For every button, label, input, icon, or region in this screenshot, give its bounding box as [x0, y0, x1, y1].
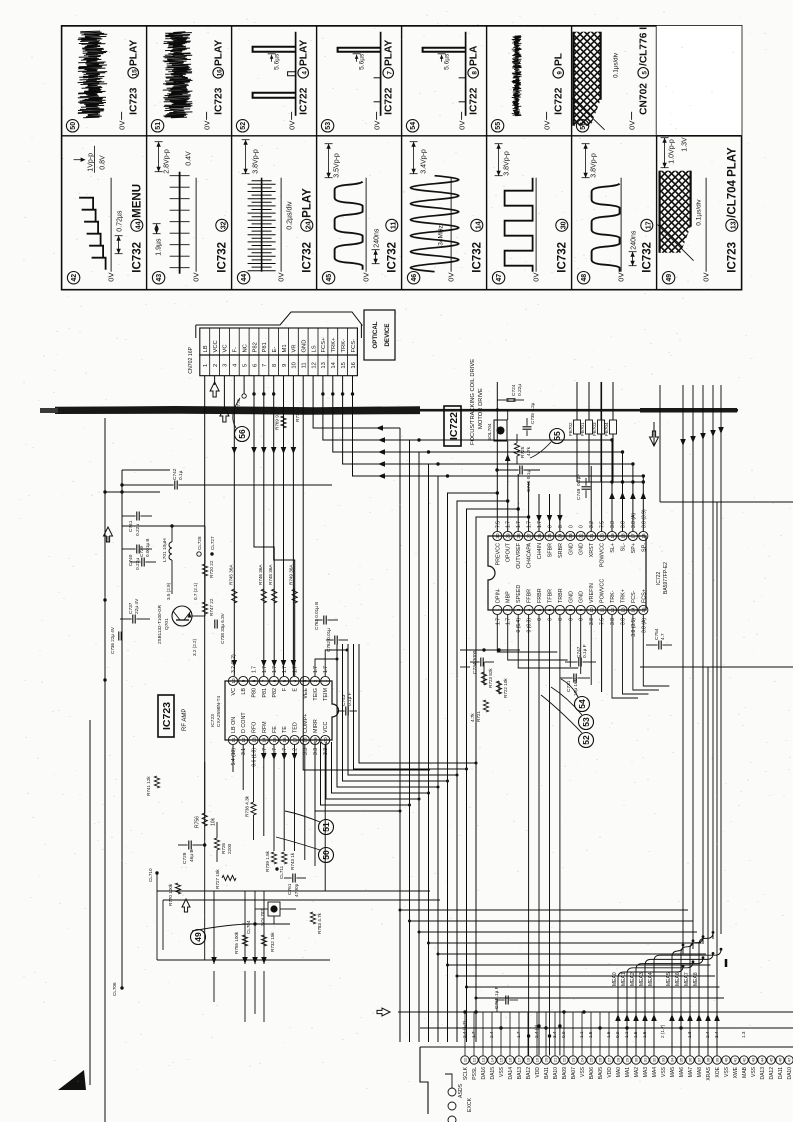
- svg-text:1.7: 1.7: [471, 1031, 476, 1038]
- wire pin11 GND: [303, 376, 430, 770]
- svg-text:XOE: XOE: [715, 1066, 721, 1077]
- svg-text:3.1: 3.1: [241, 748, 247, 755]
- svg-text:LB: LB: [241, 688, 247, 695]
- svg-text:P80: P80: [252, 688, 258, 698]
- svg-text:E: E: [293, 688, 299, 692]
- svg-text:MEA2: MEA2: [630, 972, 636, 986]
- oscillogram box 50: [66, 120, 78, 132]
- svg-text:DA14: DA14: [508, 1067, 514, 1080]
- resistor R722 10k: [496, 681, 501, 694]
- ref 52 53 54: [579, 733, 594, 748]
- svg-text:IC722: IC722: [299, 87, 310, 115]
- svg-text:13: 13: [620, 607, 625, 613]
- svg-text:12: 12: [241, 737, 246, 743]
- CL710: [155, 871, 158, 874]
- svg-text:3.4Vp-p: 3.4Vp-p: [421, 149, 428, 174]
- svg-text:OUTVREF: OUTVREF: [516, 542, 522, 568]
- GND / VREFIN wires: [569, 615, 571, 667]
- svg-text:43: 43: [751, 1057, 756, 1062]
- RF amplifier IC723 CXA2598N-T4: [225, 681, 339, 740]
- svg-text:7: 7: [262, 364, 268, 367]
- svg-text:0 (5.4): 0 (5.4): [516, 618, 522, 633]
- resistor R727 15k: [222, 875, 236, 880]
- svg-text:4: 4: [292, 679, 297, 682]
- svg-text:0V: 0V: [192, 273, 201, 282]
- XRAS XOE wires: [708, 667, 793, 1056]
- svg-text:0V: 0V: [702, 273, 711, 282]
- svg-text:11: 11: [599, 607, 604, 612]
- resistor R739 1.5k: [271, 852, 276, 864]
- svg-text:3.3: 3.3: [313, 748, 319, 755]
- svg-text:43: 43: [156, 274, 163, 282]
- svg-text:1.5: 1.5: [588, 1031, 593, 1038]
- svg-text:4.7k: 4.7k: [470, 713, 475, 722]
- svg-text:46: 46: [778, 1057, 783, 1062]
- svg-text:0V: 0V: [458, 121, 467, 130]
- svg-text:0.2µs/div: 0.2µs/div: [287, 201, 294, 230]
- svg-text:16: 16: [508, 1057, 513, 1062]
- capacitor C749 0.1uF: [582, 488, 591, 490]
- IC723 left pin wires: [232, 745, 234, 772]
- svg-text:C743: C743: [341, 694, 347, 706]
- svg-text:0V: 0V: [617, 273, 626, 282]
- svg-text:TED: TED: [293, 722, 299, 733]
- svg-text:ASDS: ASDS: [458, 1083, 464, 1098]
- svg-text:7.5: 7.5: [600, 618, 606, 625]
- svg-text:55: 55: [552, 431, 562, 441]
- svg-text:IC732: IC732: [217, 242, 229, 273]
- POWVCC stub: [601, 615, 603, 692]
- svg-text:10µH: 10µH: [162, 538, 168, 550]
- svg-text:20: 20: [544, 1057, 549, 1062]
- svg-text:5: 5: [282, 679, 287, 682]
- svg-text:14: 14: [631, 607, 636, 613]
- thick tick mark: [725, 959, 728, 967]
- MEA0-MEA8 memory bus wires: [682, 385, 684, 954]
- svg-text:0: 0: [579, 525, 585, 528]
- resistor R726 2200: [214, 838, 219, 850]
- svg-text:TFBR: TFBR: [548, 589, 554, 603]
- svg-text:38: 38: [706, 1057, 711, 1062]
- CL704: [253, 922, 256, 925]
- svg-text:31: 31: [643, 1057, 648, 1062]
- svg-text:CXA2598N-T4: CXA2598N-T4: [216, 695, 222, 727]
- svg-text:0V: 0V: [362, 273, 371, 282]
- svg-text:36: 36: [688, 1057, 693, 1062]
- svg-text:11: 11: [231, 737, 236, 742]
- svg-text:FRBR: FRBR: [537, 588, 543, 603]
- svg-text:25: 25: [589, 1057, 594, 1062]
- IC723 label: [158, 695, 174, 737]
- svg-text:6: 6: [272, 679, 277, 682]
- bus branch wire: [419, 931, 697, 933]
- svg-text:26: 26: [598, 1057, 603, 1062]
- svg-text:1.7: 1.7: [495, 618, 501, 625]
- oscillogram box 43: [152, 272, 164, 284]
- svg-text:MAB: MAB: [742, 1066, 748, 1078]
- svg-text:1.5: 1.5: [633, 1031, 638, 1038]
- wire pin2 VCC supply: [214, 376, 216, 385]
- svg-text:0: 0: [558, 618, 564, 621]
- capacitor C736 22u 4V: [118, 632, 120, 641]
- capacitor C768 0.1uF: [505, 996, 507, 1005]
- svg-text:4: 4: [233, 363, 239, 367]
- svg-text:14: 14: [474, 221, 482, 229]
- bus branch wire: [457, 975, 715, 977]
- svg-text:C749: C749: [576, 488, 582, 500]
- svg-text:20: 20: [599, 533, 604, 539]
- svg-text:MEA5: MEA5: [666, 972, 672, 986]
- svg-text:IC732: IC732: [642, 242, 654, 273]
- capacitor C731 10u16V: [573, 674, 575, 683]
- svg-text:SL+: SL+: [610, 543, 616, 553]
- svg-text:27: 27: [607, 1057, 612, 1062]
- bus branch wire: [400, 909, 688, 911]
- svg-text:33: 33: [661, 1057, 666, 1062]
- svg-text:44: 44: [760, 1057, 765, 1062]
- svg-text:PLAY: PLAY: [129, 40, 140, 66]
- svg-text:R748 36A: R748 36A: [268, 564, 273, 585]
- capacitor C737 22u 4V: [132, 615, 134, 624]
- svg-text:0.1µs/div: 0.1µs/div: [613, 52, 620, 78]
- wires CH4IN SFBR SRBR with arrows: [538, 494, 540, 531]
- svg-text:45: 45: [769, 1057, 774, 1062]
- solenoid SOL702: [268, 902, 280, 916]
- bus arrow: [377, 1008, 390, 1016]
- svg-text:P81: P81: [262, 688, 268, 698]
- svg-text:0: 0: [537, 618, 543, 621]
- capacitor C740 0.22u: [136, 545, 138, 554]
- svg-text:FCS+: FCS+: [641, 589, 647, 603]
- transistor Q701 2SB1132: [172, 606, 192, 626]
- svg-text:1.7: 1.7: [516, 1031, 521, 1038]
- svg-text:240ns: 240ns: [631, 230, 638, 250]
- capacitor C743 0.1uF: [345, 707, 347, 716]
- svg-text:SFBR: SFBR: [548, 543, 554, 557]
- svg-text:3.5 (2.9): 3.5 (2.9): [166, 582, 171, 600]
- wire OPOUT row: [507, 441, 509, 531]
- capacitor C745 0.1u: [519, 466, 521, 475]
- svg-text:P81: P81: [262, 342, 268, 352]
- ferrite beads FB702 FB701 FB703 FB704: [574, 420, 581, 434]
- wires left-top: [89, 720, 91, 1085]
- svg-text:MA5: MA5: [670, 1067, 676, 1078]
- CL706: [120, 986, 123, 989]
- bus corner bundle near IC723: [315, 742, 400, 811]
- svg-text:3.8: 3.8: [610, 618, 616, 625]
- svg-text:10: 10: [292, 362, 298, 368]
- wires looping under IC723: [315, 659, 337, 676]
- svg-text:R721: R721: [476, 711, 481, 722]
- capacitor C734 33000: [480, 658, 482, 667]
- svg-text:1.7: 1.7: [272, 666, 278, 673]
- resistor R723 82k: [481, 672, 486, 685]
- svg-text:1.7: 1.7: [506, 618, 512, 625]
- svg-text:FCS-: FCS-: [631, 590, 637, 603]
- FFBR/FRBR/TFBR/TRBR wires to IC732: [528, 615, 530, 1056]
- signal processor IC732 (partial): [420, 1046, 793, 1048]
- svg-text:5.6µs: 5.6µs: [444, 53, 451, 70]
- svg-text:VSS: VSS: [580, 1066, 586, 1077]
- scan corner mark: [58, 1070, 86, 1090]
- svg-text:CN702: CN702: [639, 83, 650, 115]
- svg-text:PLAY: PLAY: [302, 188, 314, 218]
- bus branch wire: [467, 986, 720, 988]
- svg-text:3.4: 3.4: [552, 1031, 557, 1038]
- oscillogram box 51: [151, 120, 163, 132]
- svg-text:MEA3: MEA3: [639, 972, 645, 986]
- svg-text:1.7: 1.7: [537, 521, 543, 528]
- svg-text:GND: GND: [579, 543, 585, 555]
- svg-text:0: 0: [568, 525, 574, 528]
- svg-text:R749 36A: R749 36A: [289, 564, 294, 585]
- svg-text:50: 50: [321, 850, 331, 860]
- wire pin1 LB: [204, 376, 206, 840]
- svg-text:23: 23: [568, 533, 573, 539]
- svg-text:9: 9: [579, 608, 584, 611]
- svg-text:8: 8: [568, 608, 573, 611]
- svg-text:OPOUT: OPOUT: [506, 542, 512, 562]
- svg-text:4: 4: [301, 71, 308, 75]
- svg-text:24: 24: [580, 1057, 585, 1062]
- svg-text:55: 55: [495, 122, 502, 130]
- svg-text:30: 30: [634, 1057, 639, 1062]
- svg-text:0V: 0V: [628, 121, 637, 130]
- svg-text:SCLK: SCLK: [463, 1066, 469, 1080]
- svg-text:R723 82k: R723 82k: [488, 668, 493, 688]
- bus branch wire: [448, 964, 711, 966]
- svg-text:MEA1: MEA1: [621, 972, 627, 986]
- svg-text:0V: 0V: [107, 273, 116, 282]
- svg-text:3.8: 3.8: [621, 521, 627, 528]
- svg-text:46: 46: [411, 274, 418, 282]
- svg-text:CL706: CL706: [112, 982, 117, 996]
- svg-text:1.3V: 1.3V: [682, 137, 689, 152]
- svg-text:0.9: 0.9: [615, 1031, 620, 1038]
- svg-text:DA11: DA11: [778, 1067, 784, 1079]
- svg-text:24: 24: [558, 533, 563, 539]
- resistor R725 4.7k: [514, 443, 519, 456]
- svg-text:C735 0.2µ: C735 0.2µ: [530, 402, 535, 424]
- svg-text:12: 12: [311, 362, 317, 368]
- svg-text:7.5: 7.5: [600, 521, 606, 528]
- svg-text:NC: NC: [242, 344, 248, 352]
- test pins EXCK / ASDS: [448, 1088, 456, 1096]
- svg-text:26: 26: [537, 533, 542, 539]
- svg-text:28: 28: [616, 1057, 621, 1062]
- svg-text:42: 42: [742, 1057, 747, 1062]
- svg-text:R720 22: R720 22: [209, 560, 214, 578]
- oscillogram box 56: [576, 120, 588, 132]
- svg-text:19: 19: [535, 1057, 540, 1062]
- svg-text:5.6µs: 5.6µs: [359, 53, 366, 70]
- svg-text:CL711: CL711: [279, 865, 284, 879]
- svg-text:0.1µs/div: 0.1µs/div: [696, 199, 703, 226]
- connector shell outline: [196, 312, 362, 338]
- svg-text:MEA7: MEA7: [684, 972, 690, 986]
- svg-text:2200: 2200: [227, 843, 232, 854]
- arrows on rails: [211, 957, 217, 964]
- svg-text:C737: C737: [128, 602, 134, 614]
- svg-text:14: 14: [490, 1057, 495, 1062]
- svg-text:240ns: 240ns: [374, 228, 381, 248]
- svg-text:MA8: MA8: [697, 1067, 703, 1078]
- svg-text:XRAS: XRAS: [706, 1066, 712, 1080]
- svg-text:VR: VR: [292, 344, 298, 352]
- svg-text:MIRR: MIRR: [313, 719, 319, 733]
- svg-text:14: 14: [331, 361, 337, 368]
- svg-text:48: 48: [581, 274, 588, 282]
- svg-text:MA6: MA6: [679, 1067, 685, 1078]
- svg-text:IC722: IC722: [554, 87, 565, 115]
- wire pin5 NC: [243, 376, 245, 394]
- svg-text:FFBR: FFBR: [527, 589, 533, 603]
- svg-text:16: 16: [641, 533, 646, 539]
- svg-text:6: 6: [252, 364, 258, 367]
- svg-text:40: 40: [724, 1057, 729, 1062]
- supply arrow: [104, 527, 113, 542]
- svg-text:Q701: Q701: [164, 618, 170, 630]
- svg-text:CL728: CL728: [197, 536, 202, 550]
- svg-text:8: 8: [272, 364, 278, 367]
- svg-text:9: 9: [556, 71, 563, 75]
- svg-text:13: 13: [481, 1057, 486, 1062]
- svg-text:IC732: IC732: [387, 242, 399, 273]
- svg-text:1.6: 1.6: [606, 1031, 611, 1038]
- svg-text:C740: C740: [128, 554, 134, 566]
- svg-text:TRK-: TRK-: [610, 590, 616, 603]
- svg-text:35: 35: [679, 1057, 684, 1062]
- svg-text:VREFIN: VREFIN: [589, 583, 595, 603]
- svg-text:16: 16: [216, 69, 223, 77]
- hollow arrow supply near fold: [650, 431, 659, 446]
- svg-text:0V: 0V: [532, 273, 541, 282]
- svg-text:17: 17: [517, 1057, 522, 1062]
- svg-text:10: 10: [231, 678, 236, 684]
- svg-text:21: 21: [589, 533, 594, 539]
- svg-text:R722 10k: R722 10k: [503, 678, 508, 698]
- svg-text:IC732: IC732: [472, 242, 484, 273]
- oscillogram box 49: [662, 272, 674, 284]
- wires pins 4,6-10 to IC723: [233, 376, 235, 676]
- oscillogram box 44: [237, 272, 249, 284]
- svg-text:0V: 0V: [447, 273, 456, 282]
- svg-text:2 (1.7): 2 (1.7): [660, 1024, 665, 1038]
- svg-text:17: 17: [292, 737, 297, 743]
- svg-text:OPTICAL: OPTICAL: [372, 321, 379, 348]
- svg-text:29: 29: [625, 1057, 630, 1062]
- svg-text:GND: GND: [568, 591, 574, 603]
- svg-text:4: 4: [526, 608, 531, 611]
- svg-text:7: 7: [386, 71, 393, 75]
- svg-text:BA11: BA11: [544, 1067, 550, 1079]
- svg-text:7.5: 7.5: [495, 521, 501, 528]
- svg-text:5.4 (10): 5.4 (10): [231, 748, 237, 766]
- svg-text:R770 100k: R770 100k: [168, 883, 173, 906]
- svg-text:MA2: MA2: [634, 1067, 640, 1078]
- svg-text:R756: R756: [195, 816, 201, 828]
- svg-text:IC723: IC723: [210, 714, 216, 727]
- svg-text:13: 13: [729, 221, 737, 229]
- svg-text:MBP: MBP: [506, 591, 512, 603]
- svg-text:11: 11: [389, 222, 397, 230]
- svg-text:IC722: IC722: [469, 87, 480, 115]
- svg-text:0.1µ F: 0.1µ F: [347, 692, 353, 706]
- svg-text:47: 47: [787, 1057, 792, 1062]
- OPTICAL DEVICE box: [364, 310, 395, 360]
- svg-text:49: 49: [666, 274, 673, 282]
- svg-text:50: 50: [70, 122, 77, 130]
- svg-text:VDD: VDD: [607, 1067, 613, 1078]
- svg-text:C738 33µ 6.3V: C738 33µ 6.3V: [220, 612, 225, 644]
- svg-text:44: 44: [241, 274, 248, 282]
- svg-text:DEVICE: DEVICE: [384, 323, 391, 346]
- solenoid SOL704: [494, 420, 507, 441]
- ref 49 50 51: [191, 930, 206, 945]
- svg-text:0.8V: 0.8V: [100, 155, 107, 170]
- svg-text:TE: TE: [282, 726, 288, 733]
- svg-text:3.8 (A): 3.8 (A): [641, 618, 647, 633]
- svg-text:PSSL: PSSL: [472, 1067, 478, 1080]
- svg-text:13: 13: [251, 737, 256, 743]
- svg-text:IC722: IC722: [448, 412, 460, 440]
- svg-text:BA06: BA06: [589, 1067, 595, 1079]
- connector CN702 16P: [200, 355, 358, 376]
- svg-text:IC723: IC723: [727, 242, 739, 273]
- rail cy105 junctions: [103, 490, 106, 493]
- svg-text:0.1µF: 0.1µF: [576, 474, 582, 486]
- svg-text:TRK+: TRK+: [331, 337, 337, 353]
- resistor R732 15k: [261, 935, 266, 946]
- svg-text:BA05: BA05: [598, 1067, 604, 1079]
- svg-text:/CL776 I: /CL776 I: [639, 27, 650, 66]
- svg-text:0: 0: [548, 618, 554, 621]
- svg-text:0V: 0V: [277, 273, 286, 282]
- bus branch wire: [410, 920, 693, 922]
- svg-text:R738 4.3k: R738 4.3k: [245, 795, 250, 817]
- svg-text:MA4: MA4: [652, 1067, 658, 1078]
- svg-text:19: 19: [313, 737, 318, 743]
- svg-text:1.6: 1.6: [642, 1031, 647, 1038]
- svg-text:VCC: VCC: [213, 340, 219, 352]
- svg-text:CH4CAPA: CH4CAPA: [527, 543, 533, 568]
- resistor R743 1k: [282, 852, 287, 864]
- svg-text:BA09: BA09: [562, 1067, 568, 1079]
- svg-text:F-: F-: [233, 347, 239, 353]
- svg-text:VC: VC: [231, 688, 237, 696]
- svg-text:CN702 16P: CN702 16P: [188, 346, 194, 373]
- svg-text:0.7 (2.1): 0.7 (2.1): [193, 582, 198, 600]
- svg-text:30: 30: [495, 533, 500, 539]
- svg-text:F: F: [282, 687, 288, 691]
- svg-text:SOL704: SOL704: [487, 423, 493, 441]
- svg-text:15: 15: [499, 1057, 504, 1062]
- svg-text:FCS+: FCS+: [321, 337, 327, 353]
- svg-text:1Vp-p: 1Vp-p: [88, 153, 95, 172]
- svg-text:VSS: VSS: [661, 1066, 667, 1077]
- svg-text:0: 0: [558, 525, 564, 528]
- svg-text:P82: P82: [272, 688, 278, 698]
- svg-text:VCC: VCC: [323, 722, 329, 733]
- resistor R756 10k: [202, 813, 207, 826]
- capacitor C729: [188, 841, 190, 850]
- svg-text:0V: 0V: [373, 121, 382, 130]
- svg-text:R739 1.5k: R739 1.5k: [265, 850, 270, 872]
- svg-text:10k: 10k: [211, 817, 217, 826]
- capacitor C761 4700p: [292, 874, 294, 883]
- svg-text:0V: 0V: [288, 121, 297, 130]
- resistor R769: [281, 416, 286, 428]
